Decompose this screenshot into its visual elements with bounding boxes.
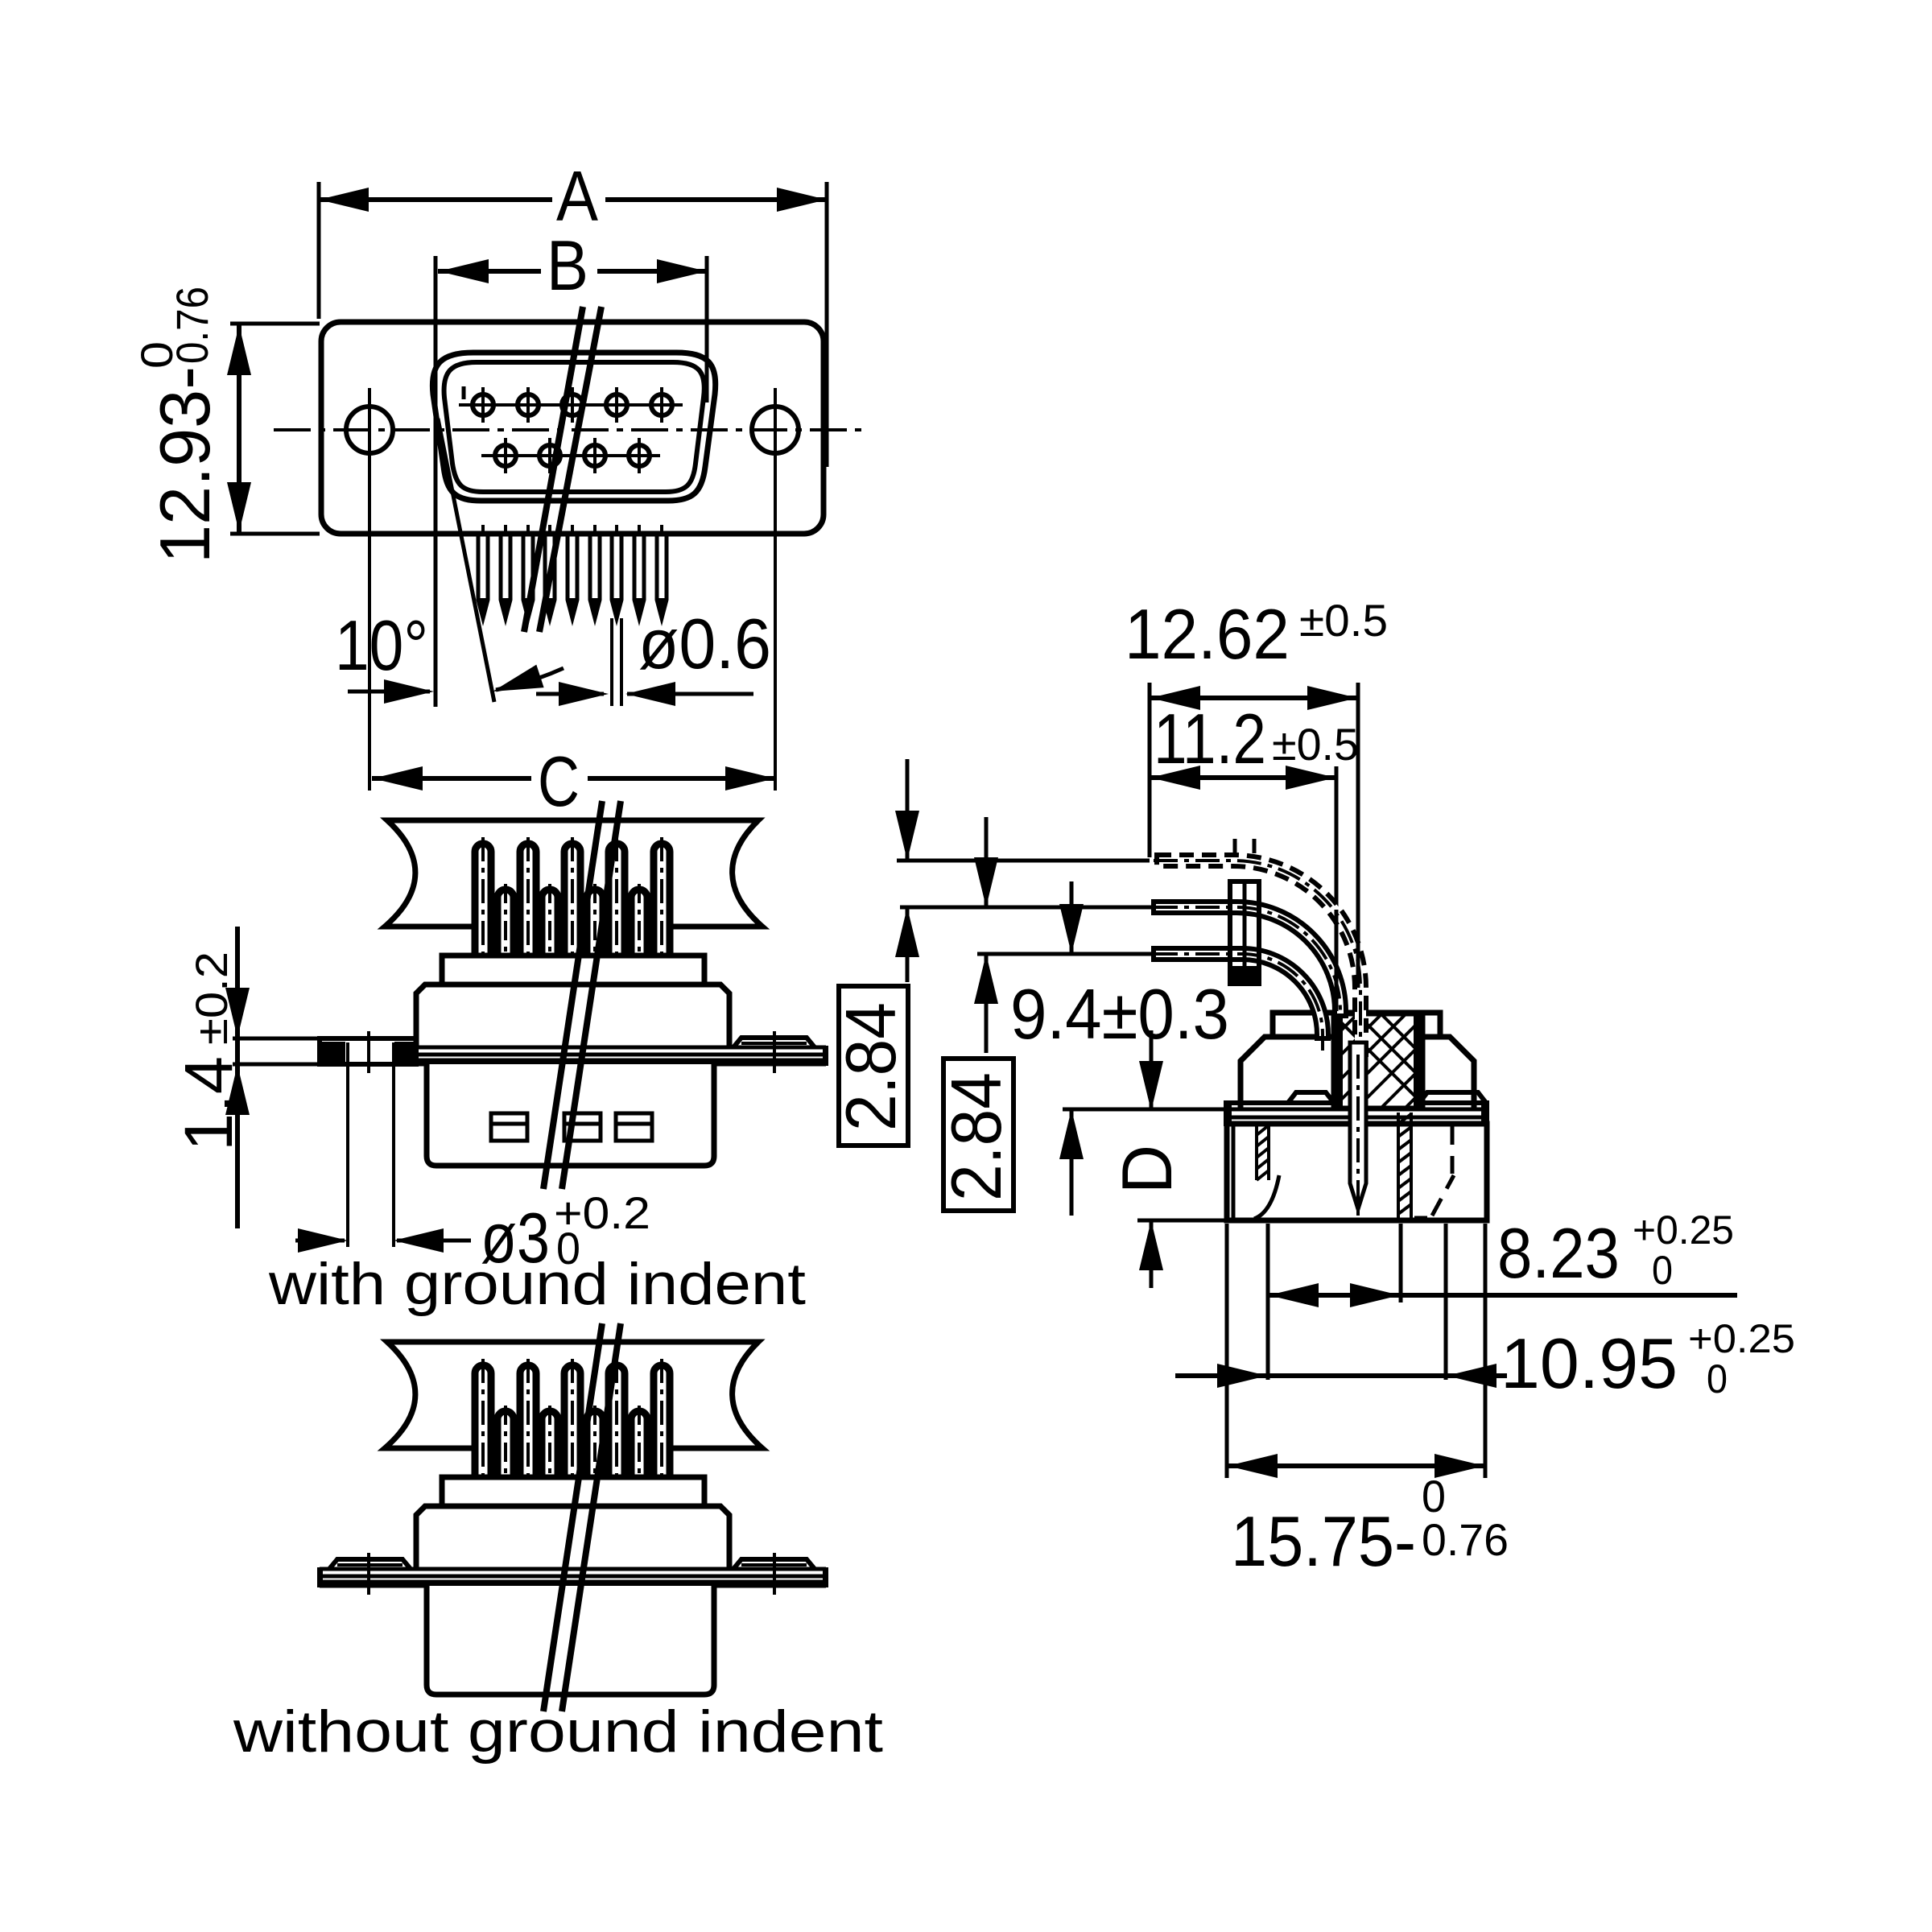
right hidden hole <box>1414 1125 1454 1218</box>
mounting hole centerline ticks <box>369 1553 774 1595</box>
svg-text:2.84: 2.84 <box>831 1002 910 1131</box>
angle dimension arc arrow <box>489 665 563 704</box>
dimension 12.93 label (rotated) <box>131 287 225 563</box>
svg-text:+0.25: +0.25 <box>1688 1316 1795 1361</box>
pin circles top row <box>473 394 672 415</box>
svg-text:±0.2: ±0.2 <box>186 952 237 1045</box>
front pin centerlines <box>506 884 639 956</box>
dimension 12.93 line <box>227 324 320 534</box>
dimension 15.75 label <box>1231 1471 1509 1581</box>
svg-text:+0.25: +0.25 <box>1633 1207 1734 1253</box>
section break lines <box>543 1323 621 1711</box>
svg-text:10.95: 10.95 <box>1501 1323 1678 1403</box>
dimension C line <box>372 766 775 791</box>
pin tips filled <box>478 598 667 618</box>
2.84 chain 2 <box>974 817 998 1053</box>
pin centerlines <box>1154 861 1360 1051</box>
dimension A line <box>319 188 827 212</box>
front row pins <box>497 890 647 959</box>
flange plate <box>321 322 824 534</box>
dimension A extension lines <box>319 182 827 467</box>
D-shell inner outline <box>444 362 704 492</box>
2.84 box 1 <box>839 986 908 1146</box>
pin circles bottom row <box>495 445 650 466</box>
lower shell <box>427 1586 714 1695</box>
svg-text:C: C <box>538 741 580 821</box>
hatch zone <box>1333 1014 1423 1108</box>
main block <box>1241 1037 1474 1108</box>
left hatch strip <box>1257 1124 1269 1180</box>
dimension D <box>1139 1030 1163 1288</box>
mounting hole right <box>752 407 799 453</box>
svg-text:±0.5: ±0.5 <box>1272 719 1359 770</box>
mounting hole centerline ticks <box>369 1031 774 1073</box>
section break lines <box>543 801 621 1189</box>
dimension 11.2 label <box>1154 699 1359 778</box>
pin 1 index tick <box>462 386 466 399</box>
svg-text:0.76: 0.76 <box>167 287 217 364</box>
bottom pin <box>1154 948 1328 1038</box>
dimension 9.4 <box>1059 881 1084 1216</box>
svg-text:0: 0 <box>1707 1356 1728 1402</box>
solder pins below flange <box>478 535 667 618</box>
svg-text:without ground indent: without ground indent <box>233 1699 883 1765</box>
flange left tab <box>329 1559 411 1569</box>
flange right tab <box>733 1038 815 1047</box>
svg-text:12.93-: 12.93- <box>145 366 225 563</box>
2.84 chain 1 <box>895 759 919 982</box>
lower body <box>1227 1124 1487 1220</box>
right hole centerline <box>774 388 777 791</box>
retention plate <box>1230 881 1259 984</box>
dimension 10.95 <box>1175 1224 1507 1388</box>
back pin centerlines <box>483 1359 662 1478</box>
ground indents <box>491 1113 652 1141</box>
svg-text:A: A <box>556 156 598 236</box>
pin stubs above flange edge <box>483 525 662 535</box>
diameter 3 label <box>481 1187 650 1278</box>
dimension 11.2 <box>1150 766 1336 910</box>
top pin (hidden) <box>1157 855 1366 1055</box>
dimension 10.95 label <box>1501 1316 1795 1403</box>
dimension 12.62 label <box>1125 594 1388 674</box>
left hole edge <box>1254 1175 1279 1219</box>
wire ribbon <box>385 1342 762 1448</box>
pin width extension lines <box>612 618 621 706</box>
dimension 8.23 label <box>1497 1207 1734 1293</box>
flange end caps <box>317 1567 323 1587</box>
svg-text:9.4±0.3: 9.4±0.3 <box>1010 974 1229 1054</box>
dimension 1.4 line <box>225 927 250 1228</box>
back row pins <box>475 1365 670 1480</box>
middle pin <box>1154 902 1346 1016</box>
diameter 0.6 dimension <box>536 682 753 706</box>
wire ribbon <box>385 820 762 927</box>
dimension 8.23 <box>1268 1224 1737 1380</box>
flange band <box>320 1569 826 1586</box>
flange left wing (sectioned) <box>320 1038 416 1064</box>
bottom pin row centerline <box>481 454 660 457</box>
mounting hole left <box>346 407 393 453</box>
svg-text:0.76: 0.76 <box>1422 1514 1509 1565</box>
lower body inner edge <box>1232 1124 1236 1220</box>
svg-text:B: B <box>547 225 588 305</box>
dimension B line <box>438 259 707 283</box>
lower shell <box>427 1064 714 1166</box>
svg-text:with ground indent: with ground indent <box>268 1252 806 1317</box>
right hatch strip <box>1398 1113 1411 1220</box>
angle dimension left arrow <box>348 679 434 704</box>
top block <box>1273 1013 1440 1037</box>
10 degree reference line <box>438 419 494 702</box>
left hole centerline <box>368 388 371 791</box>
diameter 3 dimension <box>295 1042 471 1253</box>
retention plate hidden top <box>1235 839 1254 853</box>
connector body <box>416 1506 729 1569</box>
svg-text:ø0.6: ø0.6 <box>638 604 771 683</box>
back pin centerlines <box>483 837 662 956</box>
dimension 15.75 <box>1227 1224 1485 1478</box>
front row pins <box>497 1411 647 1480</box>
flange band <box>320 1047 826 1064</box>
svg-text:2.84: 2.84 <box>936 1072 1016 1201</box>
svg-text:15.75-: 15.75- <box>1231 1501 1416 1581</box>
svg-text:11.2: 11.2 <box>1154 699 1266 778</box>
pin base block <box>442 956 704 985</box>
dimension B extension lines <box>436 256 707 707</box>
back row pins <box>475 844 670 959</box>
svg-text:1.4: 1.4 <box>171 1056 246 1151</box>
pin extension lines <box>897 861 1154 954</box>
flange top extension line <box>1063 1108 1226 1112</box>
connector body <box>416 985 729 1047</box>
pin base block <box>442 1477 704 1506</box>
svg-text:D: D <box>1107 1145 1187 1194</box>
flange end cap <box>823 1046 828 1066</box>
2.84 box 2 <box>943 1059 1013 1211</box>
dimension 1.4 label (rotated) <box>171 952 246 1151</box>
horizontal centerline <box>274 428 869 431</box>
center needle <box>1350 1042 1366 1209</box>
svg-text:12.62: 12.62 <box>1125 594 1290 674</box>
dimension 12.62 <box>1150 683 1358 885</box>
front pin centerlines <box>506 1406 639 1478</box>
D-shell outer outline <box>432 353 715 501</box>
svg-text:±0.5: ±0.5 <box>1299 595 1388 646</box>
pin circle ticks top row <box>483 387 662 423</box>
top pin row centerline <box>459 403 683 407</box>
flange right tab <box>733 1559 815 1569</box>
pin circle ticks bottom row <box>506 438 639 473</box>
flange <box>1226 1092 1487 1124</box>
svg-text:0: 0 <box>1652 1248 1673 1293</box>
body bottom extension line <box>1137 1219 1227 1223</box>
svg-text:10°: 10° <box>335 605 428 685</box>
svg-text:8.23: 8.23 <box>1497 1213 1620 1293</box>
flange extension lines <box>233 1038 321 1064</box>
section break lines <box>524 307 601 632</box>
extension lines over pins <box>1336 885 1358 1011</box>
